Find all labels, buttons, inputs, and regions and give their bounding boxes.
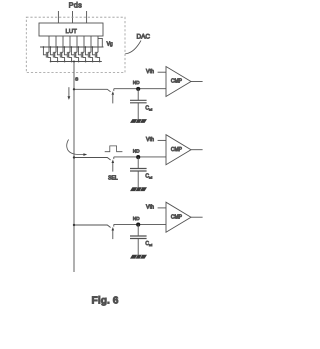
current direction arrow [68, 87, 71, 100]
transistor M2 [50, 36, 59, 62]
svg-text:Fig. 6: Fig. 6 [92, 296, 119, 307]
label DAC with leader line [125, 33, 150, 53]
svg-text:Cnd: Cnd [145, 241, 152, 247]
svg-text:DAC: DAC [137, 33, 151, 40]
comparator U1 [166, 67, 191, 97]
label Vth (2) [146, 137, 166, 143]
svg-text:SEL: SEL [108, 175, 118, 181]
wire comparator U2 output [191, 149, 203, 151]
svg-text:Cnd: Cnd [145, 174, 152, 180]
transistor M5 [71, 36, 80, 62]
comparator U3 [166, 202, 191, 232]
svg-text:ND: ND [133, 148, 140, 153]
svg-text:ND: ND [133, 216, 140, 221]
wire switch to node ND1 and comparator input [114, 88, 166, 90]
wire gate-rail hook at right [98, 38, 102, 47]
wire capacitor C2 to ground [137, 171, 139, 187]
node ND3 [133, 216, 140, 227]
ground 3 [130, 255, 147, 259]
capacitor C2 [130, 157, 153, 180]
wire switch to node ND3 and comparator input [114, 223, 166, 225]
wire Pds input 2 [72, 11, 74, 23]
node ND1 [133, 80, 140, 91]
wire main column (node S) [73, 61, 75, 273]
switch SW2 (contact and actuation arrow) [112, 157, 115, 172]
wire capacitor C3 to ground [137, 239, 139, 255]
switch SW1 (contact and actuation arrow) [112, 89, 115, 104]
Vg gate rail [40, 46, 104, 48]
switch SW3 (contact and actuation arrow) [112, 224, 115, 239]
capacitor C3 [130, 224, 153, 247]
svg-text:Pds: Pds [69, 1, 82, 10]
svg-text:CMP: CMP [171, 214, 183, 220]
comparator U2 [166, 135, 191, 165]
wire capacitor C1 to ground [137, 103, 139, 119]
svg-text:S: S [75, 77, 78, 82]
block LUT [39, 23, 103, 36]
svg-text:LUT: LUT [65, 29, 77, 35]
wire branch 1 from main column [73, 88, 111, 92]
transistor M6 [78, 36, 87, 62]
svg-text:CMP: CMP [171, 79, 183, 85]
signal-flow curved arrow into branch 2 [67, 140, 87, 156]
source rail [50, 61, 102, 63]
capacitor C1 [130, 89, 153, 112]
DAC dashed enclosure [26, 17, 125, 72]
svg-text:Cnd: Cnd [145, 106, 152, 112]
wire Pds input 1 [57, 11, 59, 23]
svg-text:Vg: Vg [107, 42, 113, 48]
SEL pulse waveform symbol [105, 146, 123, 152]
node ND2 [133, 148, 140, 159]
transistor M4 [64, 36, 73, 62]
svg-text:ND: ND [133, 80, 140, 85]
wire Pds input 3 [86, 11, 88, 23]
label Vth (3) [146, 205, 166, 211]
label Vth (1) [146, 69, 166, 75]
wire branch 3 from main column [73, 224, 111, 228]
ground 2 [130, 187, 147, 191]
svg-text:CMP: CMP [171, 147, 183, 153]
svg-text:Vth: Vth [146, 69, 154, 75]
svg-text:Vth: Vth [146, 137, 154, 143]
ground 1 [130, 119, 147, 123]
wire comparator U3 output [191, 216, 203, 218]
transistor M7 [85, 36, 94, 62]
transistor M3 [57, 36, 66, 62]
wire switch to node ND2 and comparator input [114, 156, 166, 158]
transistor M8 [92, 36, 101, 62]
svg-text:Vth: Vth [146, 205, 154, 211]
wire comparator U1 output [191, 81, 203, 83]
transistor M1 [43, 36, 52, 62]
wire branch 2 from main column [73, 156, 111, 160]
